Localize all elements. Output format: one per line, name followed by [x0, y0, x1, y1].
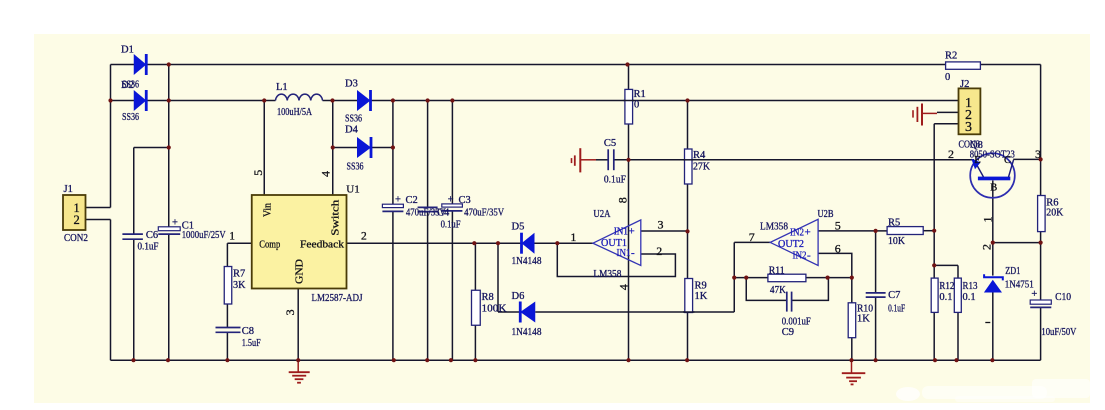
svg-text:C3: C3: [459, 195, 471, 206]
svg-text:IN1: IN1: [617, 248, 631, 259]
svg-text:27K: 27K: [693, 162, 710, 173]
svg-text:C8: C8: [242, 326, 254, 337]
svg-text:5: 5: [835, 219, 841, 233]
svg-text:1: 1: [981, 217, 995, 223]
svg-text:LM358: LM358: [760, 222, 788, 233]
svg-text:D3: D3: [345, 79, 358, 90]
svg-text:3: 3: [658, 217, 664, 231]
svg-text:L1: L1: [276, 82, 288, 93]
svg-text:0.1: 0.1: [939, 292, 952, 303]
svg-text:+: +: [629, 225, 635, 237]
svg-text:D1: D1: [121, 45, 134, 56]
svg-text:R1: R1: [634, 89, 646, 100]
svg-text:3: 3: [283, 309, 297, 315]
svg-text:10K: 10K: [888, 236, 905, 247]
svg-text:R7: R7: [233, 269, 245, 280]
svg-text:0: 0: [634, 100, 639, 111]
svg-text:R13: R13: [963, 281, 978, 292]
svg-text:0.1uF: 0.1uF: [888, 304, 905, 315]
svg-text:IN2: IN2: [790, 228, 804, 239]
svg-text:7: 7: [749, 230, 755, 244]
svg-text:2: 2: [948, 147, 954, 161]
svg-text:-: -: [631, 247, 635, 259]
svg-text:D4: D4: [345, 125, 359, 136]
svg-text:1.5uF: 1.5uF: [242, 338, 261, 349]
svg-text:100uH/5A: 100uH/5A: [277, 107, 312, 118]
svg-text:1K: 1K: [695, 291, 708, 302]
svg-text:-: -: [807, 250, 811, 262]
svg-text:SS36: SS36: [122, 112, 139, 123]
svg-text:100K: 100K: [482, 304, 507, 315]
svg-text:2: 2: [361, 231, 367, 243]
svg-text:C4: C4: [437, 207, 450, 218]
svg-text:0.1: 0.1: [963, 292, 976, 303]
svg-text:U1: U1: [346, 184, 359, 196]
svg-text:J1: J1: [64, 184, 73, 195]
svg-text:R8: R8: [482, 292, 494, 303]
svg-text:R4: R4: [693, 150, 706, 161]
svg-text:OUT2: OUT2: [778, 239, 804, 250]
svg-text:1000uF/25V: 1000uF/25V: [182, 230, 226, 241]
svg-text:SS36: SS36: [345, 114, 362, 125]
svg-text:0.1uF: 0.1uF: [441, 220, 461, 231]
svg-text:C7: C7: [888, 290, 900, 301]
svg-text:D5: D5: [512, 222, 525, 233]
svg-text:LM358: LM358: [593, 269, 621, 280]
svg-text:4: 4: [319, 171, 333, 177]
svg-text:GND: GND: [294, 259, 306, 284]
svg-text:D6: D6: [512, 291, 525, 302]
svg-text:10uF/50V: 10uF/50V: [1041, 327, 1076, 338]
svg-text:+: +: [172, 218, 178, 229]
svg-text:0: 0: [945, 72, 950, 83]
svg-text:1: 1: [229, 231, 235, 243]
svg-text:C9: C9: [782, 327, 794, 338]
svg-text:U2B: U2B: [818, 209, 834, 220]
svg-text:20K: 20K: [1046, 207, 1063, 218]
svg-text:3: 3: [1035, 147, 1041, 161]
svg-text:1N4751: 1N4751: [1005, 280, 1034, 291]
svg-text:Vin: Vin: [262, 203, 274, 217]
svg-text:IN2: IN2: [793, 251, 807, 262]
svg-text:Switch: Switch: [330, 199, 342, 236]
svg-text:5: 5: [251, 170, 265, 176]
svg-text:E: E: [974, 155, 980, 166]
svg-text:+: +: [395, 195, 401, 206]
svg-text:3: 3: [965, 120, 972, 135]
svg-text:C10: C10: [1055, 292, 1071, 303]
svg-text:U2A: U2A: [593, 209, 610, 220]
svg-text:6: 6: [835, 242, 841, 256]
svg-text:R9: R9: [695, 281, 707, 292]
svg-text:R11: R11: [769, 266, 785, 277]
svg-text:B: B: [990, 183, 997, 194]
svg-text:2: 2: [980, 244, 994, 250]
svg-text:R5: R5: [888, 217, 900, 228]
svg-text:4: 4: [617, 284, 631, 290]
svg-text:C6: C6: [146, 230, 158, 241]
svg-text:C2: C2: [406, 195, 418, 206]
svg-text:1: 1: [570, 230, 576, 244]
svg-text:8: 8: [616, 197, 630, 203]
svg-text:2: 2: [656, 244, 662, 258]
svg-text:SS36: SS36: [347, 162, 364, 173]
svg-text:3K: 3K: [233, 280, 246, 291]
svg-text:47K: 47K: [770, 285, 786, 296]
svg-text:C5: C5: [604, 138, 616, 149]
svg-text:IN1: IN1: [614, 226, 628, 237]
svg-text:R2: R2: [945, 51, 957, 62]
svg-text:D2: D2: [121, 80, 134, 91]
svg-text:470uF/35V: 470uF/35V: [464, 207, 504, 218]
svg-text:1N4148: 1N4148: [512, 327, 542, 338]
svg-text:CON2: CON2: [64, 233, 88, 244]
svg-text:ZD1: ZD1: [1005, 266, 1020, 277]
svg-text:R12: R12: [939, 281, 954, 292]
svg-text:J2: J2: [960, 79, 969, 90]
svg-text:0.1uF: 0.1uF: [138, 242, 159, 253]
svg-text:0.1uF: 0.1uF: [604, 175, 626, 186]
svg-text:C: C: [1004, 155, 1011, 166]
svg-text:1K: 1K: [857, 314, 870, 325]
svg-text:1N4148: 1N4148: [512, 256, 542, 267]
svg-text:2: 2: [74, 213, 80, 227]
svg-text:Feedback: Feedback: [300, 239, 345, 251]
svg-text:+: +: [805, 227, 811, 239]
svg-text:Comp: Comp: [259, 239, 280, 251]
svg-text:LM2587-ADJ: LM2587-ADJ: [312, 293, 363, 304]
svg-text:+: +: [448, 195, 454, 206]
svg-text:+: +: [1031, 289, 1037, 300]
